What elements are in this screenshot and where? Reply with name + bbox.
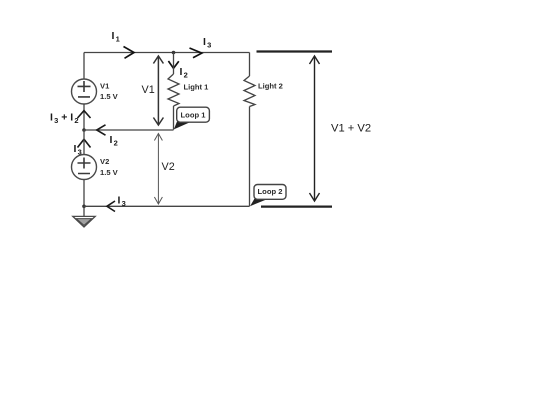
callout Loop 1 bbox=[174, 107, 210, 129]
current arrow I3 (up, above V2) bbox=[78, 139, 91, 147]
terminal bar bottom right bbox=[261, 206, 332, 208]
resistor Light 2 bbox=[244, 76, 255, 107]
voltage source V1 bbox=[72, 79, 97, 104]
node A junction dot bbox=[82, 128, 86, 132]
wire bottom horizontal bbox=[84, 205, 250, 207]
wire light2 bottom bbox=[249, 107, 251, 207]
svg-text:Loop 2: Loop 2 bbox=[258, 187, 283, 196]
wire light2 top bbox=[249, 53, 251, 77]
wire left vertical (top of V1) bbox=[83, 53, 85, 80]
current arrow I2 (down) below top junction bbox=[168, 61, 178, 68]
current arrow I3+I2 (up) bbox=[78, 111, 91, 118]
current arrow I2 (left) on middle wire bbox=[97, 125, 106, 135]
callout Loop 2 bbox=[250, 185, 286, 207]
wire top horizontal bbox=[84, 52, 250, 54]
terminal bar top right bbox=[257, 50, 333, 52]
svg-text:V1 + V2: V1 + V2 bbox=[331, 123, 371, 135]
node B junction dot bbox=[82, 205, 86, 209]
wire middle horizontal bbox=[84, 129, 174, 131]
voltage source V2 bbox=[72, 155, 97, 180]
svg-text:V2: V2 bbox=[100, 157, 109, 166]
current arrow I3 (right) on top wire bbox=[190, 48, 202, 58]
svg-text:Light 1: Light 1 bbox=[184, 83, 210, 92]
voltage arrow V1 + V2 (double headed) bbox=[310, 56, 320, 201]
svg-text:V2: V2 bbox=[162, 161, 175, 173]
wire V2 to ground node bbox=[83, 180, 85, 207]
wire light1 top bbox=[173, 53, 175, 75]
wire node A to V2 bbox=[83, 130, 85, 155]
svg-text:V1: V1 bbox=[100, 82, 110, 91]
node top junction dot bbox=[172, 51, 176, 55]
current arrow I3 (left) on bottom wire bbox=[107, 201, 115, 212]
svg-text:V1: V1 bbox=[142, 84, 155, 96]
wire V1 to node A bbox=[83, 104, 85, 130]
current arrow I1 (right) on top wire bbox=[124, 47, 135, 59]
resistor Light 1 bbox=[168, 74, 179, 106]
wire light1 bottom bbox=[173, 106, 175, 130]
wire to ground bbox=[83, 206, 85, 216]
ground bbox=[73, 216, 95, 227]
voltage arrow V1 (double headed) bbox=[153, 56, 163, 125]
svg-text:1.5 V: 1.5 V bbox=[100, 168, 119, 177]
svg-text:Light 2: Light 2 bbox=[258, 82, 283, 91]
voltage arrow V2 (double headed) bbox=[154, 134, 162, 205]
svg-text:Loop 1: Loop 1 bbox=[181, 111, 207, 120]
svg-text:1.5 V: 1.5 V bbox=[100, 92, 119, 101]
